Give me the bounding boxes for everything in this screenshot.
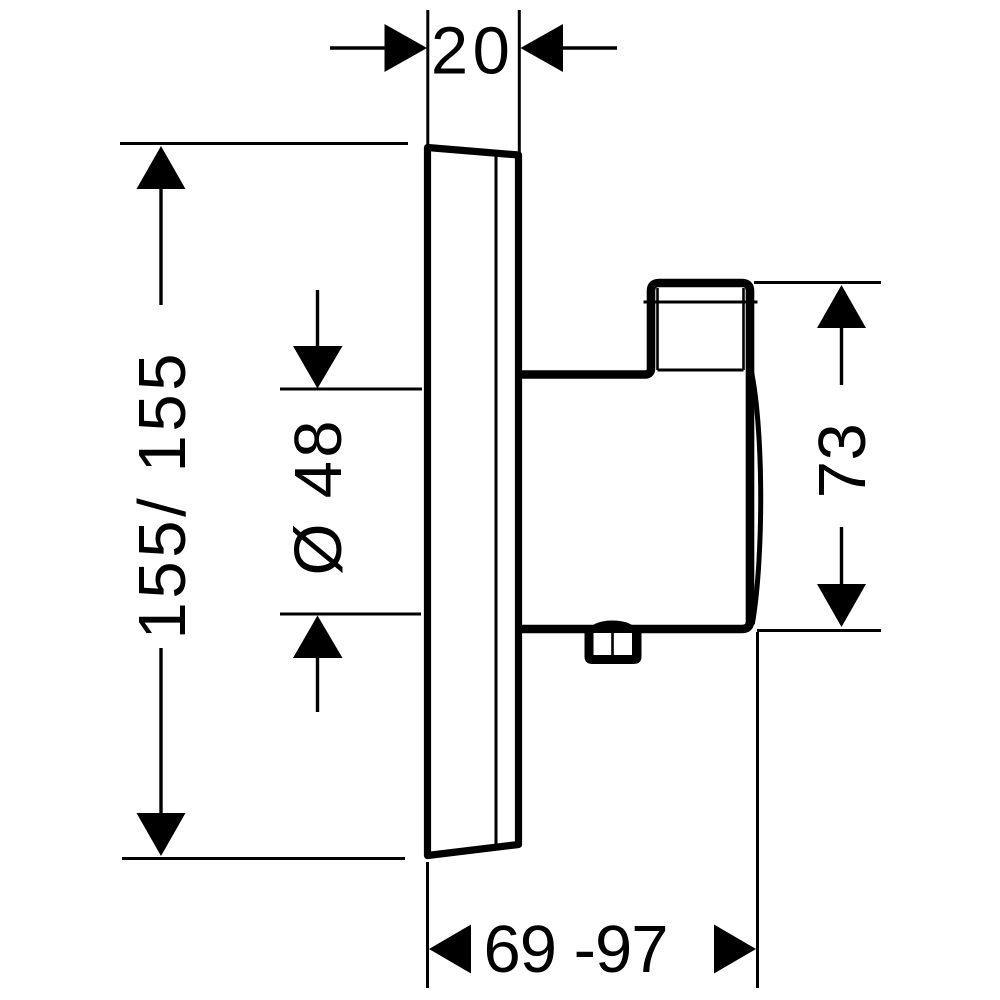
bottom tab body: [585, 626, 642, 664]
dim 20: right arrowhead: [521, 24, 564, 72]
escutcheon wall plate outline: [428, 148, 519, 856]
dim 20: left leader line: [330, 46, 386, 49]
valve body and handle outline: [515, 283, 750, 629]
handle inner right line: [742, 288, 745, 370]
plate inner edge line: [495, 153, 498, 851]
dim 48: bottom extension line: [280, 613, 421, 616]
svg-text:69 -97: 69 -97: [484, 912, 669, 987]
dim 20: right leader line: [562, 46, 617, 49]
dim 155: top extension line: [120, 142, 408, 145]
dim 73: upper shaft: [840, 327, 843, 385]
dim 20: left arrowhead: [385, 24, 428, 72]
dim 48: lower shaft: [316, 655, 319, 712]
dim 73: bottom extension line: [757, 629, 881, 632]
bottom tab bump arc: [586, 621, 639, 633]
handle bottom seam line: [658, 369, 744, 372]
dim 155: bottom extension line: [122, 857, 405, 860]
dim 48: top extension line: [280, 388, 422, 391]
dim 73: down arrowhead: [817, 584, 866, 627]
bottom tab divider line: [611, 633, 614, 655]
dim 20: left extension line: [426, 10, 429, 146]
dim 155: lower shaft: [159, 648, 162, 816]
bottom tab inner window: [594, 633, 633, 655]
dim 73: lower shaft: [840, 527, 843, 585]
dim 48: down arrowhead: [293, 346, 343, 389]
handle cap seam line: [644, 301, 758, 304]
dim 69-97: right extension line: [756, 632, 759, 988]
dim 69-97: right arrowhead: [714, 925, 756, 974]
dim 69-97: left arrowhead: [429, 925, 471, 974]
dim 48: up arrowhead: [293, 616, 343, 659]
dim 73: top extension line: [754, 281, 881, 284]
svg-text:Ø 48: Ø 48: [281, 421, 356, 576]
dim 73: up arrowhead: [817, 285, 866, 328]
dim 155: down arrowhead: [137, 813, 186, 856]
dim 20: right extension line: [518, 10, 521, 155]
dim 48: upper shaft: [316, 290, 319, 348]
dim 155: upper shaft: [159, 188, 162, 305]
svg-text:73: 73: [805, 423, 880, 498]
dim 69-97: left extension line: [426, 862, 429, 988]
dim 155: up arrowhead: [137, 146, 186, 189]
handle inner left line: [656, 288, 659, 370]
body right side bulge: [751, 367, 761, 623]
